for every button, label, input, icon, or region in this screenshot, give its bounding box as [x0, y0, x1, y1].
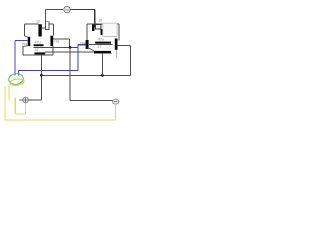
LED D1 glow yellow ellipse [9, 78, 24, 86]
wire cap stub down to mid rail [101, 53, 103, 75]
node junction dot cap stub [101, 74, 104, 77]
node junction dot C1 lead [69, 46, 72, 49]
blue wire Q1 base [15, 41, 28, 76]
capacitor C4 plate [94, 51, 111, 53]
transistor Q1 base bar [28, 37, 31, 46]
blue wire Q3 base lead [78, 44, 86, 46]
blue wire cross link [18, 45, 78, 71]
node junction dot mid rail [40, 74, 43, 77]
wire stage2 top edge [87, 23, 119, 25]
wire gray mid horizontal rail [41, 45, 130, 75]
svg-text:TR2: TR2 [80, 41, 86, 45]
wire C3 lead [89, 43, 113, 45]
transistor Q4 emitter stub [115, 50, 117, 59]
capacitor C1 plate [34, 44, 44, 46]
resistor R1 box [45, 22, 49, 30]
LED D1 glow green ellipse [8, 73, 24, 86]
wire long vertical to minus terminal [70, 47, 112, 100]
wire top supply rail right [70, 8, 94, 10]
plus terminal [23, 97, 29, 103]
transistor Q3 emitter diagonal [89, 48, 94, 51]
transistor Q3 collector wire [86, 24, 88, 40]
minus terminal [113, 99, 119, 104]
wire Q2 emitter stub down [52, 46, 54, 55]
svg-text:TR1: TR1 [54, 40, 60, 44]
wire link bar to R1 [42, 27, 46, 29]
wire Q2 collector lead right [53, 39, 69, 47]
yellow wire plus terminal loop [15, 98, 25, 115]
wire drop to R1 [44, 9, 46, 21]
capacitor C3 plate [95, 42, 111, 44]
transistor Q1 collector wire [24, 24, 26, 36]
svg-text:M: M [65, 8, 68, 12]
wire stage2 right edge [118, 24, 120, 41]
wire drop to stage2 [94, 9, 96, 26]
yellow wire LED cathode to bottom rail [4, 86, 6, 120]
svg-text:10: 10 [98, 19, 102, 23]
wire C1 lead cross coupling [34, 46, 79, 48]
wire collector node top edge stage1 [25, 23, 54, 25]
transistor Q1 emitter wire [22, 46, 24, 55]
wire riser from plus terminal [20, 55, 42, 100]
transistor Q3 bar [86, 40, 89, 49]
yellow wire LED second lead [8, 85, 10, 100]
wire C4 lead [94, 53, 112, 55]
svg-text:TR1: TR1 [22, 42, 28, 46]
capacitor C3 coupling bar lower [100, 29, 103, 35]
svg-text:47: 47 [98, 45, 102, 49]
wire C2 lead cross coupling to stage2 [45, 51, 94, 53]
capacitor C3 coupling bar left [92, 25, 94, 31]
transistor Q1 emitter diagonal [23, 46, 28, 47]
transistor Q2 collector wire from top edge [52, 24, 54, 36]
wire top supply rail left [45, 8, 63, 10]
resistor R2 big box [103, 23, 117, 36]
resistor R2a small box [95, 25, 101, 29]
transistor Q2 bar [50, 36, 53, 46]
wire emitter bottom rail stage1 [23, 54, 53, 56]
capacitor C1 coupling bar [38, 24, 41, 36]
svg-text:47u: 47u [35, 41, 41, 45]
svg-text:47: 47 [35, 48, 39, 52]
yellow wire bottom rail [5, 104, 116, 120]
transistor Q4 bar [115, 39, 118, 50]
svg-text:47u: 47u [98, 38, 104, 42]
blue wire LED second pin [17, 71, 19, 76]
capacitor C2 plate [34, 52, 45, 54]
svg-text:10: 10 [36, 20, 40, 24]
transistor Q1 collector diagonal [25, 36, 28, 37]
motor M1 [64, 6, 70, 12]
